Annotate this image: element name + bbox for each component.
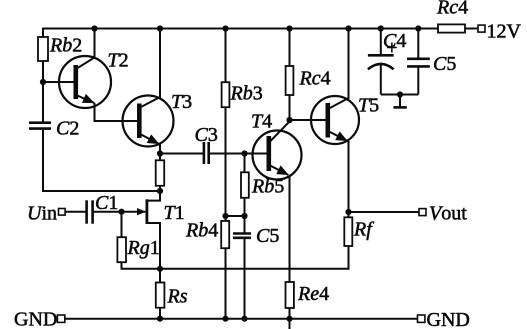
node C5 ground junction bbox=[241, 316, 247, 322]
resistor Rf bbox=[344, 217, 352, 246]
wire top supply rail bbox=[43, 28, 438, 30]
wire C4 C5 ground link bbox=[381, 94, 419, 96]
resistor Rb5 bbox=[241, 172, 249, 198]
wire Rb3 top bbox=[225, 29, 227, 83]
wire Rb5 bottom bbox=[244, 198, 246, 216]
svg-text:Rc4: Rc4 bbox=[299, 68, 331, 90]
wire stub below ground rail bbox=[289, 319, 291, 329]
wire Re4 bottom to ground rail bbox=[289, 308, 291, 319]
wire Rc4 bottom to T4 collector node bbox=[289, 95, 291, 120]
capacitor C3 bbox=[204, 142, 209, 164]
svg-text:Vout: Vout bbox=[429, 203, 467, 225]
node Rs top junction bbox=[157, 266, 163, 272]
svg-text:Rb2: Rb2 bbox=[49, 35, 82, 57]
capacitor C1 bbox=[87, 200, 93, 223]
svg-text:12V: 12V bbox=[487, 21, 522, 43]
svg-text:Rs: Rs bbox=[167, 286, 188, 308]
svg-text:Rf: Rf bbox=[353, 219, 374, 241]
wire Rb4 top bbox=[225, 216, 227, 221]
wire resistor bottom to drain node bbox=[159, 186, 161, 191]
node divider junction left bbox=[222, 213, 228, 219]
wire T4 emitter down to Re4 bbox=[289, 175, 291, 282]
svg-text:T2: T2 bbox=[108, 50, 129, 72]
svg-text:GND: GND bbox=[14, 309, 57, 329]
terminal GND left bbox=[57, 315, 64, 322]
ground symbol bbox=[393, 95, 406, 108]
resistor Re4 bbox=[286, 282, 294, 308]
wire Rb4 bottom to ground rail bbox=[225, 248, 227, 319]
transistor T5 bbox=[311, 29, 359, 145]
wire T2 base lead bbox=[43, 81, 74, 83]
resistor Rb2 bbox=[38, 37, 48, 61]
node divider junction right bbox=[241, 213, 247, 219]
svg-text:T1: T1 bbox=[164, 202, 185, 224]
wire Rc4 to 12V terminal bbox=[465, 28, 478, 30]
node T3 emitter junction bbox=[157, 150, 163, 156]
svg-text:T5: T5 bbox=[358, 95, 379, 117]
resistor Rg1 bbox=[117, 237, 126, 262]
wire divider link bbox=[226, 215, 245, 217]
wire T4 base lead bbox=[245, 153, 268, 155]
wire Rs bottom bbox=[159, 308, 161, 319]
terminal Uin bbox=[59, 209, 66, 216]
node Rb3 rail junction bbox=[222, 25, 228, 31]
wire T5 base lead bbox=[290, 119, 327, 121]
resistor Rb4 bbox=[221, 221, 229, 248]
wire Rb3 bottom to divider node bbox=[225, 107, 227, 216]
wire node to C3 bbox=[160, 153, 204, 155]
svg-text:C5: C5 bbox=[433, 53, 456, 75]
node T4 collector junction bbox=[286, 117, 292, 123]
wire C2 bottom down and right to T1 drain node bbox=[43, 130, 160, 191]
node C4 rail junction bbox=[378, 25, 384, 31]
resistor Rs bbox=[156, 283, 165, 308]
node ground link junction bbox=[397, 91, 403, 97]
wire C5 filter top bbox=[417, 29, 419, 59]
wire C4 top bbox=[380, 29, 382, 56]
node Re4 ground junction bbox=[286, 316, 292, 322]
node T5 collector rail junction bbox=[345, 25, 351, 31]
svg-text:C2: C2 bbox=[56, 118, 79, 140]
wire C3 to T4 base node bbox=[209, 153, 245, 155]
wire Rg1 bottom to feedback line bbox=[122, 262, 161, 269]
svg-text:GND: GND bbox=[427, 309, 470, 329]
capacitor C2 bbox=[29, 123, 51, 129]
wire Rs top bbox=[159, 269, 161, 283]
svg-text:Re4: Re4 bbox=[297, 283, 329, 305]
wire Uin to C1 bbox=[65, 211, 86, 213]
svg-text:Uin: Uin bbox=[27, 203, 57, 225]
svg-text:C5: C5 bbox=[256, 225, 279, 247]
svg-text:T4: T4 bbox=[251, 111, 272, 133]
wire output to Vout terminal bbox=[349, 211, 420, 213]
svg-text:Rg1: Rg1 bbox=[127, 237, 160, 259]
resistor in T3 emitter (unlabeled) bbox=[156, 160, 165, 186]
wire C5 bottom bbox=[417, 66, 419, 94]
wire C5 bottom to ground rail bbox=[244, 238, 246, 319]
capacitor C5 bypass bbox=[233, 234, 251, 238]
svg-text:Rc4: Rc4 bbox=[436, 0, 468, 19]
node output junction bbox=[345, 209, 351, 215]
node Rb4 ground junction bbox=[222, 316, 228, 322]
terminal Vout bbox=[419, 209, 426, 216]
resistor Rc4 vertical bbox=[286, 66, 294, 95]
wire bottom ground rail bbox=[65, 318, 418, 320]
svg-text:Rb3: Rb3 bbox=[230, 83, 263, 105]
svg-text:C3: C3 bbox=[195, 124, 218, 146]
transistor T4 bbox=[253, 120, 302, 180]
node gate junction bbox=[118, 209, 124, 215]
node C5 rail junction bbox=[415, 25, 421, 31]
wire C4 bottom bbox=[380, 64, 382, 95]
svg-text:Rb4: Rb4 bbox=[185, 220, 218, 242]
terminal 12V bbox=[478, 25, 485, 32]
wire Rb2 bottom to C2 bbox=[42, 61, 44, 122]
transistor T2 bbox=[59, 29, 111, 109]
resistor Rb3 bbox=[222, 82, 230, 107]
wire T3 emitter down bbox=[159, 144, 161, 161]
node Rs ground junction bbox=[157, 316, 163, 322]
node T2 collector rail junction bbox=[91, 25, 97, 31]
node T3 collector rail junction bbox=[157, 25, 163, 31]
node T2 base junction bbox=[40, 79, 46, 85]
wire T5 emitter to output node bbox=[348, 141, 350, 218]
svg-text:+: + bbox=[386, 37, 397, 59]
wire left column above Rb2 bbox=[42, 28, 44, 38]
capacitor C5 filter bbox=[407, 59, 430, 67]
wire Rc4 collector resistor top bbox=[289, 29, 291, 67]
node T4 base junction bbox=[241, 150, 247, 156]
wire T4 base node to Rb5 bbox=[244, 154, 246, 173]
wire T2 emitter to T3 base bbox=[95, 103, 138, 121]
wire gate node to Rg1 bbox=[121, 212, 123, 238]
transistor T1 JFET bbox=[122, 191, 161, 269]
terminal GND right bbox=[418, 315, 425, 322]
svg-text:T3: T3 bbox=[171, 91, 192, 113]
wire C5 top bbox=[244, 216, 246, 234]
capacitor C4 electrolytic bbox=[368, 55, 394, 69]
node Rc4 rail junction bbox=[286, 25, 292, 31]
wire feedback line to Rf bbox=[160, 246, 349, 269]
resistor Rc4 series supply bbox=[438, 24, 465, 32]
transistor T3 bbox=[123, 29, 174, 147]
node T1 drain junction bbox=[157, 188, 163, 194]
wire C1 to gate node bbox=[93, 211, 121, 213]
